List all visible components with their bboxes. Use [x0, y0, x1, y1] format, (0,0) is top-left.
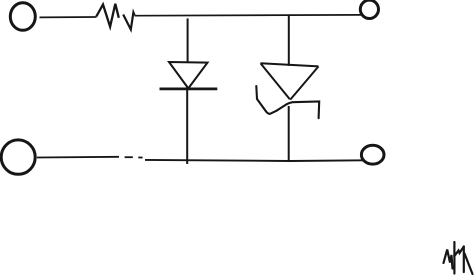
resistor R1 zigzag: [96, 4, 119, 27]
wire bottom dash 1: [125, 156, 133, 158]
wire zener D2 bottom vertical: [288, 106, 290, 161]
wire diode D1 top vertical: [187, 18, 189, 62]
terminal circle bottom-left: [1, 140, 35, 174]
resistor R1 right check stroke: [123, 13, 134, 30]
diode D1 cathode bar: [160, 88, 218, 91]
wire diode D1 bottom vertical: [186, 89, 188, 164]
terminal circle top-right: [360, 0, 378, 18]
diode D1 triangle: [169, 62, 208, 88]
zener diode D2 bent cathode stroke: [256, 86, 319, 118]
wire bottom-left segment: [37, 156, 119, 159]
wire top rail: [135, 14, 362, 17]
wire bottom rail: [145, 160, 364, 161]
wire zener D2 top vertical: [288, 15, 290, 66]
corner scribble mark: [444, 242, 473, 274]
wire from top-left terminal to resistor: [40, 16, 97, 18]
wire bottom dash 2: [138, 157, 142, 159]
terminal circle bottom-right: [361, 145, 384, 164]
terminal circle top-left: [10, 3, 35, 31]
zener diode D2 triangle: [261, 63, 319, 99]
